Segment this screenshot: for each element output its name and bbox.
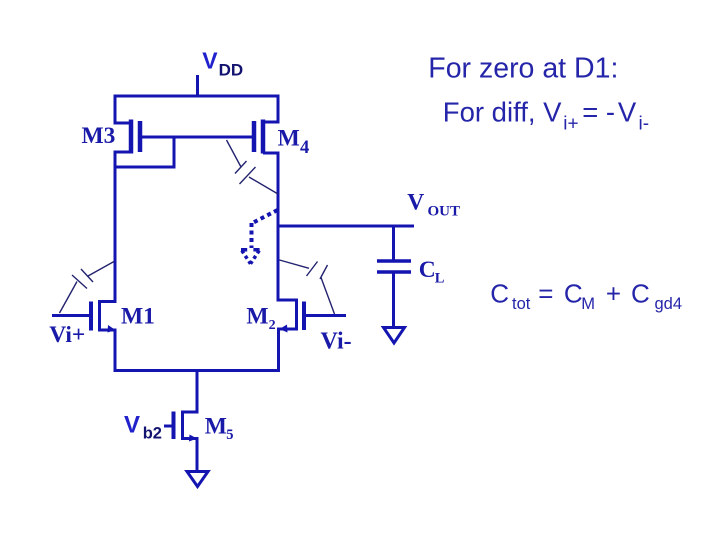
- svg-text:V: V: [202, 47, 218, 73]
- svg-text:gd4: gd4: [655, 295, 683, 313]
- svg-text:M: M: [246, 303, 268, 329]
- svg-text:5: 5: [226, 427, 233, 443]
- svg-text:V: V: [407, 190, 424, 216]
- svg-text:i-: i-: [639, 114, 650, 135]
- svg-text:b2: b2: [143, 424, 162, 442]
- svg-text:L: L: [435, 271, 445, 287]
- svg-text:+: +: [606, 279, 621, 309]
- svg-text:tot: tot: [512, 295, 531, 313]
- svg-text:C: C: [631, 279, 650, 309]
- svg-text:V: V: [124, 412, 140, 439]
- svg-text:OUT: OUT: [428, 204, 461, 220]
- svg-text:= -: = -: [582, 96, 615, 127]
- svg-text:=: =: [538, 279, 553, 309]
- svg-text:C: C: [490, 279, 509, 309]
- svg-text:M: M: [205, 414, 227, 440]
- svg-text:DD: DD: [219, 60, 244, 79]
- svg-text:2: 2: [269, 318, 276, 333]
- svg-text:For zero at D1:: For zero at D1:: [428, 53, 618, 85]
- svg-text:C: C: [564, 279, 583, 309]
- svg-text:M: M: [581, 295, 595, 313]
- svg-text:M3: M3: [82, 123, 116, 149]
- svg-text:i+: i+: [563, 114, 578, 135]
- svg-text:4: 4: [300, 138, 309, 158]
- svg-text:C: C: [419, 257, 436, 283]
- svg-text:For diff, V: For diff, V: [443, 96, 562, 127]
- svg-text:M1: M1: [121, 304, 155, 330]
- svg-text:Vi+: Vi+: [49, 322, 85, 348]
- svg-text:M: M: [278, 126, 300, 152]
- svg-text:V: V: [618, 96, 637, 127]
- svg-text:Vi-: Vi-: [321, 329, 352, 355]
